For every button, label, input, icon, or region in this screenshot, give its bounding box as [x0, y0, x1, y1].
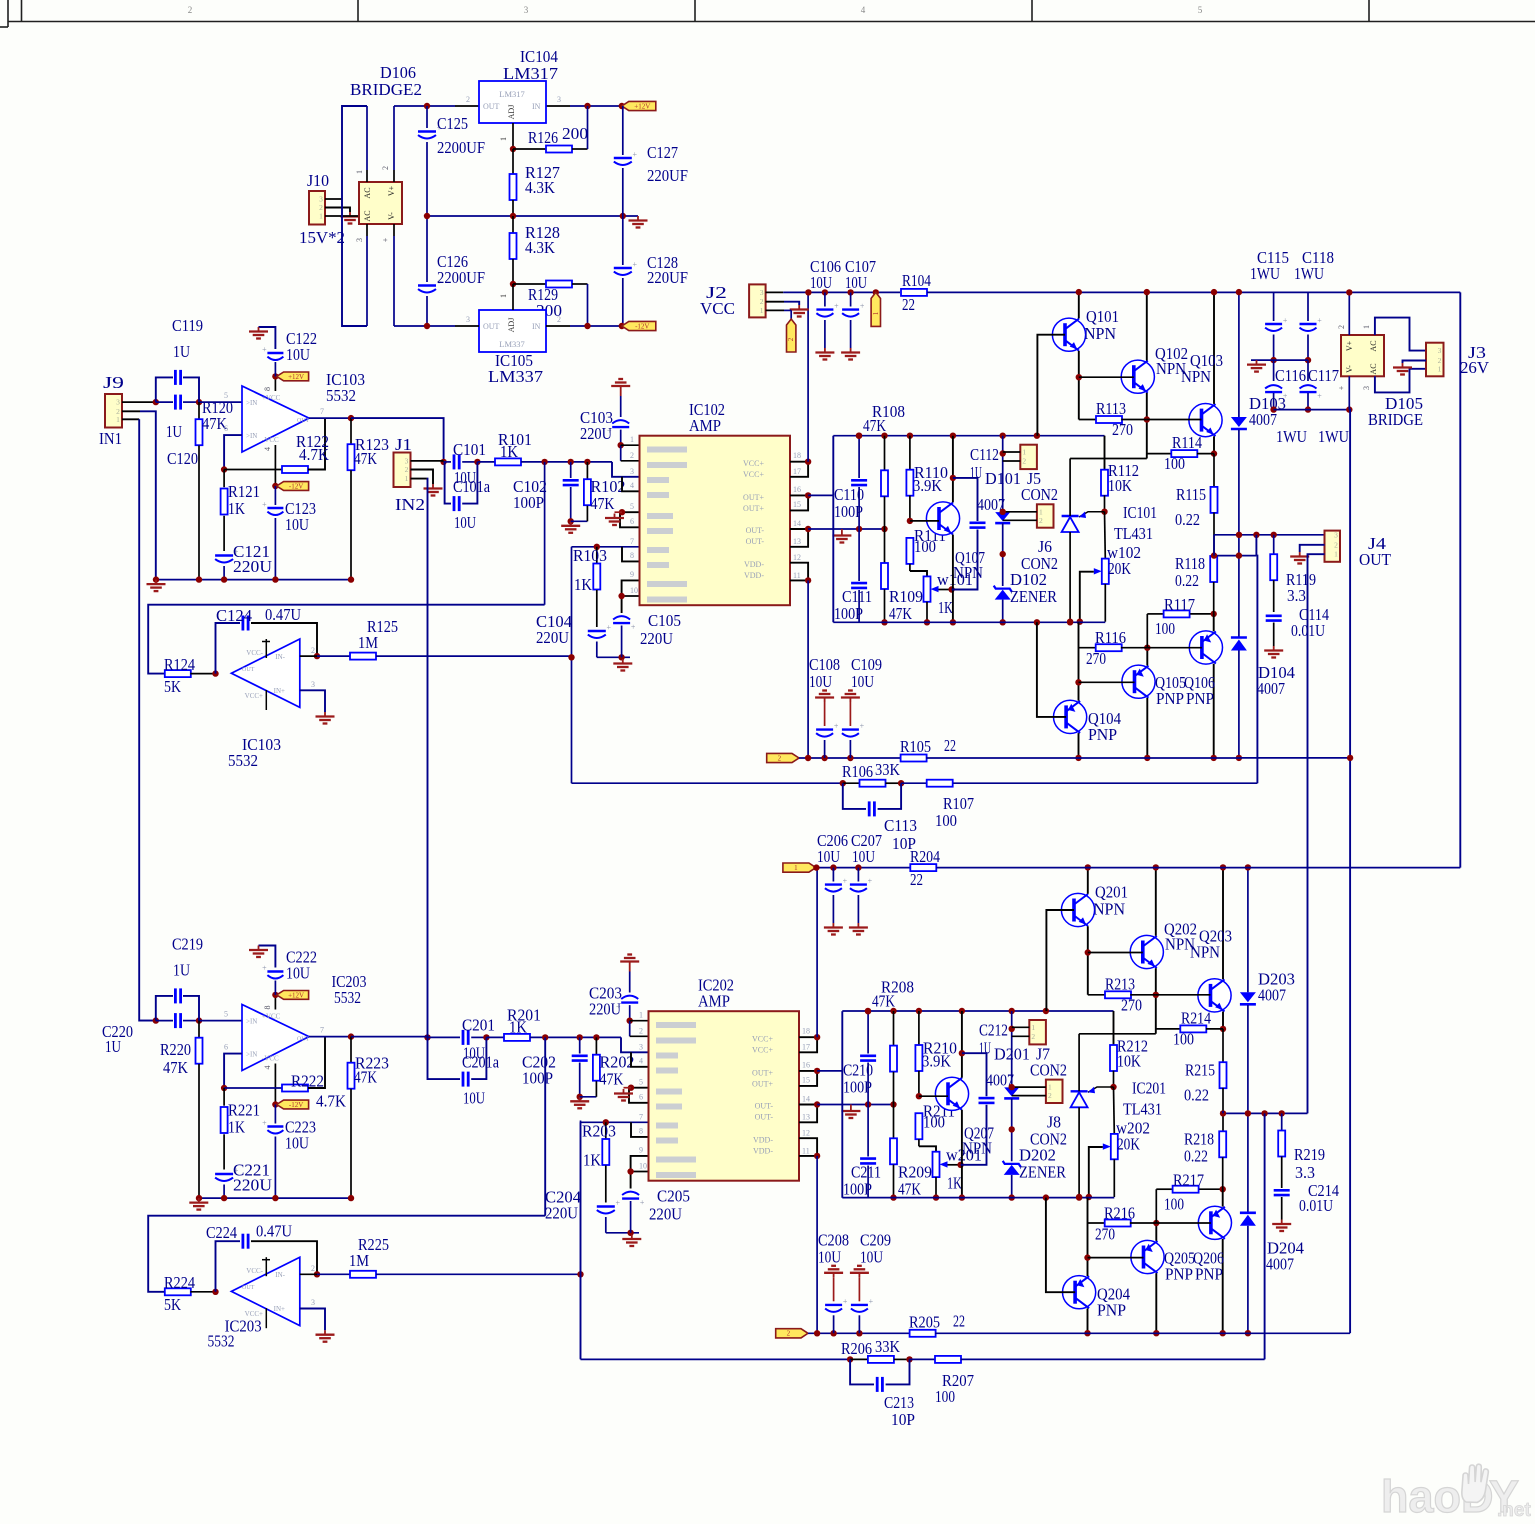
svg-text:PNP: PNP	[1186, 689, 1214, 708]
wire J3 pin2 to ground	[1403, 361, 1427, 364]
wire J10 pin3 to bridge loop	[325, 198, 342, 200]
svg-text:C212: C212	[979, 1020, 1008, 1039]
svg-text:3: 3	[311, 680, 315, 689]
svg-text:NPN: NPN	[1181, 367, 1211, 386]
svg-text:+: +	[633, 150, 638, 159]
svg-text:CON2: CON2	[1021, 554, 1058, 573]
connector J3	[1426, 343, 1444, 377]
amp right pin pair jogs	[790, 462, 808, 477]
wire J2 pin1 to flag	[766, 309, 784, 311]
svg-text:VCC+: VCC+	[743, 470, 764, 479]
junction C202	[577, 1034, 583, 1040]
svg-text:220U: 220U	[545, 1204, 578, 1223]
svg-text:4.3K: 4.3K	[525, 178, 556, 197]
svg-text:.net: .net	[1497, 1500, 1531, 1521]
feedback/servo node vertical	[580, 1122, 582, 1358]
svg-text:+12V: +12V	[288, 373, 304, 381]
ground below C202	[579, 1097, 581, 1102]
svg-text:12: 12	[793, 553, 801, 562]
capacitor C205	[631, 1156, 649, 1189]
capacitor C114	[1266, 614, 1282, 617]
svg-text:10U: 10U	[860, 1247, 883, 1266]
svg-text:3: 3	[557, 95, 561, 104]
zener D202	[1003, 1161, 1021, 1167]
amp pin8 tie	[631, 1122, 649, 1137]
junction ADJ R126	[510, 146, 516, 152]
amp pin4 tie	[622, 477, 640, 492]
svg-text:33K: 33K	[875, 760, 901, 779]
wire servo loop top	[148, 1216, 545, 1292]
svg-text:22: 22	[953, 1311, 965, 1330]
svg-text:1M: 1M	[349, 1251, 369, 1270]
svg-text:IN+: IN+	[274, 687, 285, 695]
amplifier IC IC102 AMP	[640, 436, 791, 606]
diode D203	[1247, 867, 1249, 992]
svg-text:4.7K: 4.7K	[299, 445, 330, 464]
resistor R209	[893, 1104, 895, 1138]
svg-text:1K: 1K	[228, 1118, 246, 1137]
svg-text:5532: 5532	[228, 751, 258, 770]
local ground rail under amp	[606, 1232, 639, 1234]
svg-text:10U: 10U	[285, 1134, 309, 1153]
resistor R129	[513, 283, 546, 285]
svg-text:11: 11	[802, 1147, 810, 1156]
ground below C102	[570, 521, 572, 526]
connector J2 VCC	[749, 284, 766, 317]
svg-text:100P: 100P	[513, 493, 544, 512]
svg-text:R214: R214	[1181, 1008, 1211, 1027]
svg-text:IN+: IN+	[274, 1305, 285, 1313]
svg-text:220U: 220U	[640, 629, 673, 648]
resistor R104	[901, 289, 927, 296]
VEE rail	[776, 1329, 808, 1338]
connector J1	[394, 453, 411, 488]
svg-text:3: 3	[524, 5, 529, 15]
resistor R224	[165, 1288, 191, 1295]
svg-text:220UF: 220UF	[647, 268, 688, 287]
svg-text:100P: 100P	[843, 1180, 872, 1199]
resistor R118	[1213, 555, 1215, 557]
power flag -12V at op-amp	[277, 482, 309, 491]
resistor R103	[596, 547, 598, 563]
svg-text:2200UF: 2200UF	[437, 138, 485, 157]
power flag +12V at op-amp	[277, 991, 309, 1000]
svg-text:R213: R213	[1105, 974, 1135, 993]
svg-text:8: 8	[263, 387, 272, 391]
svg-text:>IN: >IN	[246, 1018, 257, 1026]
svg-text:+: +	[262, 500, 267, 509]
svg-text:-12V: -12V	[289, 482, 303, 490]
svg-text:15: 15	[802, 1076, 810, 1085]
bracket wire OUT+ rail	[841, 1011, 843, 1071]
potentiometer w101	[924, 576, 931, 601]
svg-text:1: 1	[355, 170, 364, 174]
wire input node	[122, 401, 156, 403]
connector J4 OUT	[1325, 531, 1341, 562]
svg-text:100: 100	[935, 1387, 955, 1406]
svg-text:47K: 47K	[591, 494, 616, 513]
svg-text:J10: J10	[307, 171, 329, 190]
svg-text:10K: 10K	[1117, 1051, 1142, 1070]
wire J10 pin1 to bridge	[325, 215, 359, 217]
capacitor C207	[857, 868, 859, 882]
svg-text:LM317: LM317	[499, 89, 525, 99]
svg-text:0.01U: 0.01U	[1299, 1196, 1333, 1215]
junction servo riser	[542, 1034, 548, 1040]
svg-text:R106: R106	[842, 762, 873, 781]
amp OUT- wire	[808, 528, 884, 530]
svg-text:1K: 1K	[583, 1151, 602, 1170]
resistor R116	[1079, 647, 1097, 649]
power flag +12V at op-amp	[277, 372, 309, 381]
svg-text:4: 4	[630, 481, 634, 490]
svg-text:3: 3	[630, 467, 634, 476]
servo op-amp vcc stubs	[265, 1257, 267, 1276]
amp pin1 lead	[630, 1020, 649, 1022]
svg-text:11: 11	[793, 571, 801, 580]
driver rail R108 top	[833, 435, 1104, 437]
wire J10 pin2 to ground	[325, 208, 350, 213]
svg-text:4.7K: 4.7K	[316, 1092, 347, 1111]
transistor Q206 PNP	[1198, 1206, 1231, 1239]
svg-text:2: 2	[1048, 1091, 1052, 1100]
VCC+ rail ch1	[766, 291, 784, 293]
svg-text:2: 2	[466, 95, 470, 104]
ground on OUT- wire	[850, 1105, 852, 1107]
bridge rectifier D105	[1341, 335, 1384, 376]
LM337 ADJ lead	[512, 284, 514, 310]
power flag VCC on rail	[871, 292, 880, 326]
D105 V- lead long to VEE2	[1348, 376, 1350, 409]
bottom wire to D105 V-	[1274, 409, 1350, 411]
svg-text:-12V: -12V	[635, 322, 649, 330]
svg-text:R105: R105	[900, 737, 931, 756]
svg-text:10U: 10U	[852, 847, 875, 866]
svg-text:220UF: 220UF	[647, 166, 688, 185]
local ground rail under amp	[597, 656, 630, 658]
svg-text:NPN: NPN	[1190, 942, 1220, 961]
svg-text:OUT: OUT	[242, 1285, 255, 1291]
svg-text:8: 8	[263, 1006, 272, 1010]
svg-text:47K: 47K	[863, 416, 887, 435]
ground under amp	[622, 659, 624, 664]
svg-text:47K: 47K	[600, 1070, 625, 1089]
svg-text:-VCC: -VCC	[262, 436, 279, 444]
svg-text:100: 100	[1164, 1194, 1184, 1213]
wire -raw rail to LM337	[394, 325, 455, 327]
svg-text:OUT: OUT	[1359, 550, 1392, 569]
svg-text:LM337: LM337	[488, 367, 544, 386]
svg-text:1U: 1U	[173, 961, 190, 980]
op-amp VCC- lead	[274, 445, 276, 486]
svg-text:8: 8	[630, 551, 634, 560]
op-amp VCC+ lead with C122	[274, 376, 276, 391]
svg-text:TL431: TL431	[1123, 1099, 1162, 1118]
capacitor C220	[156, 1020, 173, 1022]
svg-text:47K: 47K	[354, 449, 378, 468]
svg-text:IN-: IN-	[275, 1271, 285, 1279]
transistor Q103 NPN	[1189, 404, 1222, 437]
resistor R215	[1222, 1029, 1224, 1063]
svg-text:7: 7	[630, 537, 634, 546]
svg-text:3: 3	[1362, 386, 1371, 390]
wire servo loop top	[148, 605, 544, 674]
resistor R108 body	[884, 436, 886, 471]
capacitor C109 with inverted ground	[849, 698, 851, 703]
svg-text:2: 2	[188, 5, 193, 15]
diode D201	[1011, 1011, 1013, 1087]
svg-text:R216: R216	[1104, 1203, 1135, 1222]
svg-text:PNP: PNP	[1156, 689, 1184, 708]
bridge D106 pin 2 lead	[393, 170, 395, 182]
ground at J10 pin2	[349, 212, 351, 217]
feedback drop ch2	[1264, 1113, 1266, 1359]
svg-text:C119: C119	[172, 316, 203, 335]
svg-text:+: +	[262, 1119, 267, 1128]
svg-text:+12V: +12V	[288, 991, 304, 999]
svg-text:+: +	[843, 877, 848, 886]
svg-text:-VCC: -VCC	[262, 1055, 279, 1063]
svg-text:220U: 220U	[589, 1000, 621, 1019]
resistor R206	[850, 1358, 868, 1360]
svg-text:R113: R113	[1096, 399, 1126, 418]
svg-text:V+: V+	[387, 185, 396, 196]
svg-text:10U: 10U	[454, 513, 476, 532]
resistor R127	[512, 149, 514, 174]
svg-text:5: 5	[630, 502, 634, 511]
resistor R102	[586, 462, 588, 479]
svg-text:>IN: >IN	[246, 399, 257, 407]
svg-text:1: 1	[639, 1011, 643, 1020]
feedback drop ch1	[1255, 535, 1257, 556]
analog ground rail	[199, 1197, 351, 1199]
VCC riser to amp pin18	[816, 868, 818, 1038]
ground symbol input stage	[155, 580, 157, 585]
svg-text:+: +	[616, 1199, 621, 1208]
capacitor C201	[428, 1036, 461, 1038]
svg-text:+VCC: +VCC	[262, 1013, 281, 1021]
capacitor C211	[867, 1105, 869, 1157]
svg-text:100: 100	[923, 1112, 945, 1131]
svg-text:13: 13	[802, 1113, 810, 1122]
svg-text:R203: R203	[582, 1122, 616, 1141]
svg-text:PNP: PNP	[1088, 725, 1117, 744]
svg-text:1WU: 1WU	[1294, 264, 1324, 283]
wire ch2 opamp out to C201	[351, 1036, 428, 1038]
bridge rectifier D106	[359, 182, 402, 224]
resistor R113	[1079, 419, 1097, 421]
wire J2 pin2 to ground	[766, 301, 784, 303]
svg-text:2: 2	[639, 1027, 643, 1036]
capacitor C222	[267, 970, 283, 972]
svg-text:4: 4	[263, 447, 272, 451]
svg-text:R215: R215	[1185, 1060, 1215, 1079]
svg-text:C120: C120	[167, 449, 198, 468]
svg-text:47K: 47K	[354, 1068, 378, 1087]
svg-text:5K: 5K	[164, 677, 182, 696]
svg-text:OUT: OUT	[297, 1037, 310, 1043]
transistor Q207 NPN	[935, 1077, 968, 1110]
transistor Q102 NPN	[1121, 360, 1154, 393]
w202 wiper wire	[1089, 1147, 1103, 1197]
svg-text:3.3: 3.3	[1287, 586, 1306, 605]
wire OUT lower stub	[1214, 555, 1256, 557]
ground under amp	[631, 1235, 633, 1240]
wire LM317 out to +12V flag	[546, 105, 570, 107]
svg-text:220U: 220U	[233, 557, 272, 576]
op-amp output wire	[309, 1036, 351, 1038]
svg-text:4: 4	[263, 1066, 272, 1070]
svg-text:3: 3	[639, 1043, 643, 1052]
svg-text:J1: J1	[395, 435, 412, 454]
svg-text:C117: C117	[1308, 366, 1339, 385]
svg-text:10P: 10P	[891, 1410, 915, 1429]
svg-text:1: 1	[872, 311, 880, 315]
svg-text:VCC+: VCC+	[245, 692, 263, 700]
resistor R107	[927, 780, 953, 787]
svg-text:NPN: NPN	[1084, 324, 1116, 343]
svg-text:5532: 5532	[208, 1332, 235, 1351]
svg-text:3.9K: 3.9K	[922, 1051, 952, 1070]
junction C102	[568, 459, 574, 465]
svg-text:9: 9	[639, 1146, 643, 1155]
w101 wiper wire	[939, 589, 952, 591]
capacitor C112	[953, 478, 978, 521]
amp pins 5-6 GND tie	[620, 512, 640, 527]
svg-text:10U: 10U	[818, 1247, 841, 1266]
riser servo ch2	[544, 1037, 546, 1215]
svg-text:270: 270	[1086, 649, 1106, 668]
svg-text:3: 3	[1334, 530, 1338, 539]
junction +12V node	[619, 103, 625, 109]
svg-text:3.3: 3.3	[1295, 1163, 1315, 1182]
op-amp output wire	[309, 417, 351, 419]
connector J10	[309, 191, 325, 225]
svg-text:5K: 5K	[164, 1295, 182, 1314]
lower driver rail	[842, 1197, 1114, 1199]
amp pin2 lead	[621, 460, 640, 462]
transistor Q202 NPN	[1130, 935, 1163, 968]
transistor Q204 PNP	[1063, 1276, 1096, 1309]
svg-text:5: 5	[224, 1010, 228, 1019]
svg-text:R219: R219	[1294, 1145, 1325, 1164]
svg-text:OUT+: OUT+	[752, 1080, 773, 1089]
svg-text:R222: R222	[291, 1072, 324, 1091]
capacitor C214	[1274, 1189, 1290, 1192]
resistor R125	[300, 655, 317, 657]
svg-text:1: 1	[1362, 325, 1371, 329]
svg-text:ZENER: ZENER	[1010, 587, 1058, 606]
svg-text:1: 1	[794, 864, 798, 872]
svg-text:AC: AC	[363, 210, 372, 221]
svg-text:R117: R117	[1164, 595, 1195, 614]
svg-text:16: 16	[802, 1061, 810, 1070]
svg-text:2: 2	[405, 465, 409, 474]
wire R106 to R107	[901, 782, 926, 784]
svg-text:IN: IN	[532, 322, 541, 331]
svg-text:9: 9	[630, 570, 634, 579]
svg-text:1U: 1U	[105, 1037, 121, 1056]
D105 AC bottom lead	[1375, 369, 1426, 393]
wire jog into IN+ pin	[612, 462, 640, 477]
resistor R114	[1147, 453, 1172, 455]
capacitor C224 integrator	[212, 1289, 218, 1295]
svg-text:4: 4	[861, 5, 866, 15]
svg-text:C101: C101	[453, 440, 486, 459]
svg-text:13: 13	[793, 537, 801, 546]
driver rail R208 top	[842, 1010, 1113, 1012]
svg-text:+: +	[381, 237, 390, 242]
svg-text:22: 22	[910, 870, 923, 889]
resistor R121	[223, 470, 225, 488]
wire J9 pin1 to channel2 input	[122, 418, 139, 420]
wire input node	[139, 1020, 156, 1022]
resistor R112	[1104, 436, 1106, 470]
VEE rail ch1 extension to bridge V-	[1240, 757, 1350, 759]
TL431 IC201	[1071, 1090, 1088, 1092]
svg-text:2: 2	[787, 1330, 791, 1338]
capacitor C113 bypass	[843, 783, 866, 809]
ground at servo IN+	[324, 712, 326, 717]
power flag -12V	[622, 321, 656, 330]
sheet border top	[8, 21, 1535, 23]
wire R225 to IN- node ch2	[376, 1273, 581, 1275]
wire R206 to R207	[910, 1358, 936, 1360]
svg-text:2: 2	[381, 166, 390, 170]
svg-text:J9: J9	[103, 373, 124, 392]
svg-text:C125: C125	[437, 114, 468, 133]
svg-text:R116: R116	[1095, 628, 1126, 647]
capacitor C122	[267, 352, 283, 354]
svg-text:R206: R206	[841, 1339, 872, 1358]
svg-text:2: 2	[311, 646, 315, 655]
VCC rail ch2	[816, 867, 910, 869]
svg-text:TL431: TL431	[1114, 524, 1153, 543]
svg-text:1K: 1K	[228, 499, 246, 518]
svg-text:3: 3	[116, 398, 120, 407]
svg-text:ADJ: ADJ	[507, 318, 516, 333]
svg-text:10U: 10U	[286, 345, 310, 364]
svg-text:IN-: IN-	[275, 653, 285, 661]
resistor R222 feedback	[224, 1087, 282, 1089]
amp IN- pin7 wire	[572, 546, 640, 548]
capacitor C101	[444, 461, 451, 463]
resistor R221	[223, 1088, 225, 1106]
svg-text:2: 2	[778, 754, 782, 762]
wire OUT node rail ch1	[1214, 534, 1325, 536]
svg-text:100P: 100P	[834, 502, 863, 521]
svg-text:1: 1	[319, 212, 323, 221]
capacitor C206	[832, 868, 834, 882]
svg-text:5: 5	[639, 1078, 643, 1087]
capacitor C101a bypass	[445, 462, 451, 504]
ground rail of PSU	[427, 215, 638, 217]
wire J1 pin2 to ground	[411, 470, 434, 485]
svg-text:47K: 47K	[872, 991, 896, 1010]
VEE rail ch2 extension to bridge V-	[1249, 1332, 1350, 1334]
svg-text:0.22: 0.22	[1184, 1085, 1209, 1104]
LM317 ADJ lead	[512, 123, 514, 149]
capacitor C117	[1307, 360, 1309, 381]
capacitor C202	[579, 1037, 581, 1053]
resistor R210	[918, 1011, 920, 1045]
wire inverting input	[224, 435, 242, 469]
svg-text:IC201: IC201	[1132, 1078, 1166, 1097]
resistor R117	[1146, 614, 1148, 648]
svg-text:1WU: 1WU	[1276, 427, 1307, 446]
svg-text:LM317: LM317	[503, 64, 559, 83]
svg-text:VDD-: VDD-	[744, 560, 764, 569]
